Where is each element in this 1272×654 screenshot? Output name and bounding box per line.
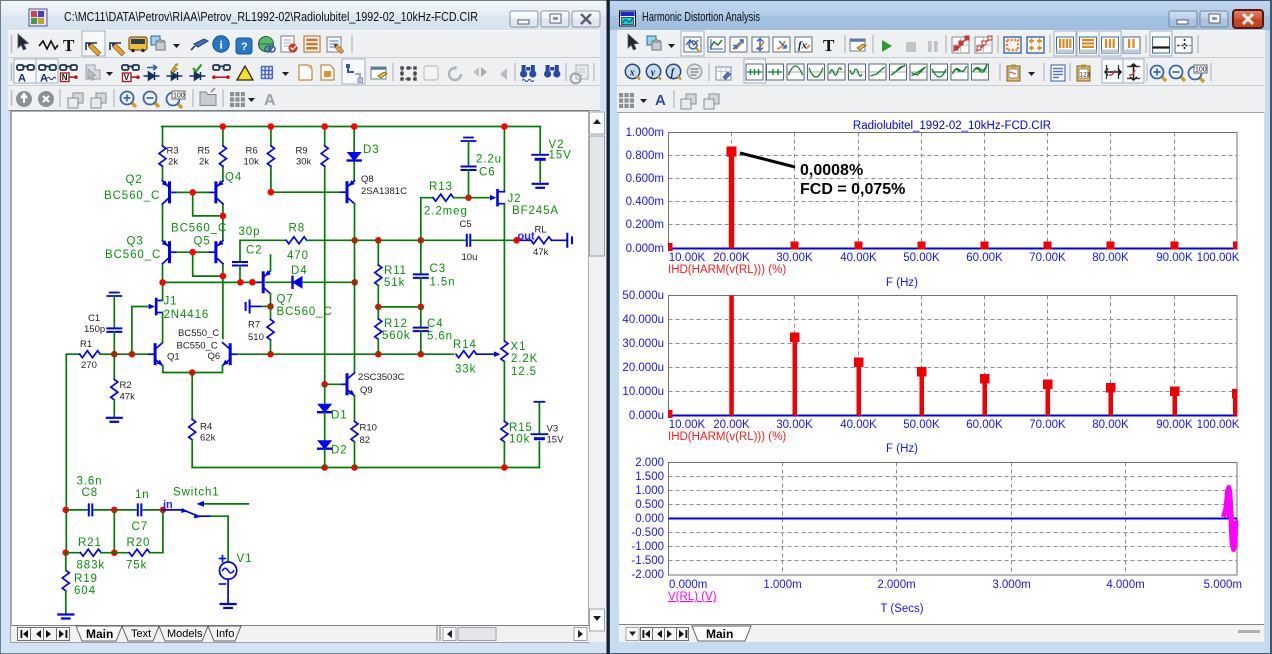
resistor R8 — [286, 237, 307, 244]
resistor R6 — [267, 146, 274, 167]
wire D1 top — [324, 384, 326, 403]
toolbar area — [617, 30, 1265, 112]
junction R8row-C3 — [418, 237, 425, 244]
wire cap to Q7 collector — [251, 305, 262, 307]
wire R20 right corner — [150, 510, 163, 553]
capacitor C8 — [89, 504, 93, 515]
wire Q9 base row — [325, 383, 341, 385]
capacitor at Q7 emitter — [246, 301, 250, 313]
ground at R19 — [58, 615, 73, 619]
svg-text:V3: V3 — [547, 424, 559, 435]
junction R9-Q9 base-D1 — [321, 381, 328, 388]
diode D2 — [318, 441, 331, 449]
toolbar area — [8, 30, 600, 111]
wire R14 to X1 wiper — [477, 353, 498, 355]
wire C3 top — [420, 240, 422, 274]
junction C4 bottom — [418, 351, 425, 358]
wire RL to terminator — [552, 239, 567, 241]
wire R10 bottom — [354, 442, 356, 468]
junction wire joint — [249, 279, 256, 286]
wire Q3col to Q7 base — [163, 281, 258, 283]
svg-text:5.000m: 5.000m — [1204, 579, 1242, 591]
wire J1 gate — [132, 307, 150, 355]
wire D1-D2 — [324, 413, 326, 440]
plot 2 — [669, 296, 1238, 416]
wire D2 bottom — [324, 450, 326, 468]
svg-text:Q4: Q4 — [225, 172, 242, 184]
svg-text:BC550_C: BC550_C — [177, 341, 218, 352]
wire R11 bottom — [377, 285, 379, 307]
svg-text:BC560_C: BC560_C — [277, 306, 333, 318]
junction Q5 collector — [220, 273, 227, 280]
junction rail-R9 — [321, 123, 328, 130]
svg-text:15V: 15V — [547, 435, 565, 446]
svg-text:V1: V1 — [237, 553, 253, 565]
svg-text:D1: D1 — [331, 410, 348, 422]
svg-text:10k: 10k — [244, 157, 260, 168]
wire R9 column — [324, 127, 326, 385]
svg-text:A: A — [18, 73, 26, 85]
junction Q3-Q5 bases — [189, 249, 196, 256]
svg-text:N: N — [62, 73, 68, 82]
svg-text:20.00K: 20.00K — [713, 419, 750, 431]
wire out to RL — [517, 239, 531, 241]
svg-text:-1.500: -1.500 — [631, 555, 664, 567]
svg-text:0.000m: 0.000m — [669, 579, 707, 591]
svg-text:V: V — [124, 73, 130, 82]
svg-text:510: 510 — [248, 332, 264, 343]
wire left column — [65, 354, 67, 553]
svg-text:FCD = 0,075%: FCD = 0,075% — [800, 181, 905, 198]
svg-text:10k: 10k — [509, 434, 530, 446]
junction rail-R15 — [501, 464, 508, 471]
svg-text:Switch1: Switch1 — [173, 487, 220, 499]
svg-text:0.800m: 0.800m — [626, 150, 664, 162]
JFET J2 — [498, 190, 505, 205]
capacitor C2 — [233, 262, 247, 266]
svg-text:2.000m: 2.000m — [877, 579, 915, 591]
wire R8 to C5 — [307, 239, 465, 241]
svg-text:R2: R2 — [120, 380, 132, 391]
svg-text:R14: R14 — [453, 339, 477, 351]
svg-text:out: out — [518, 231, 535, 243]
resistor R11 — [375, 265, 382, 286]
svg-text:IHD(HARM(v(RL))) (%): IHD(HARM(v(RL))) (%) — [668, 431, 786, 443]
wire R2 top — [113, 354, 115, 379]
svg-text:Q2: Q2 — [126, 174, 143, 186]
svg-text:C7: C7 — [132, 521, 149, 533]
resistor R5 — [219, 146, 226, 167]
resistor R19 — [62, 570, 69, 590]
junction J1 gate wire — [129, 351, 136, 358]
wire C1 bottom — [113, 332, 115, 354]
wire R1 to Q1 base — [100, 353, 149, 355]
capacitor C6 — [462, 167, 476, 171]
svg-text:A: A — [655, 92, 666, 109]
svg-text:40.00K: 40.00K — [840, 252, 877, 264]
diode D4 — [293, 277, 303, 288]
svg-text:100.00K: 100.00K — [1197, 419, 1240, 431]
capacitor C4 — [414, 328, 428, 332]
wire Q9 emitter to R10 — [354, 396, 356, 422]
svg-text:20.000u: 20.000u — [622, 362, 664, 374]
svg-text:T: T — [63, 36, 75, 55]
svg-text:A: A — [40, 73, 48, 85]
transistor Q4 — [210, 181, 223, 204]
resistor R12 — [375, 319, 382, 340]
resistor R9 — [321, 146, 328, 167]
svg-text:60.00K: 60.00K — [966, 419, 1003, 431]
svg-text:1.000m: 1.000m — [626, 127, 664, 139]
svg-text:1n: 1n — [135, 489, 150, 501]
junction R21 left — [63, 549, 70, 556]
svg-text:0.500: 0.500 — [635, 499, 664, 511]
wire V3 column — [538, 404, 540, 468]
plot canvas — [619, 113, 1264, 624]
svg-text:C2: C2 — [246, 245, 263, 257]
svg-text:Main: Main — [706, 627, 733, 641]
svg-text:Radiolubitel_1992-02_10kHz-FCD: Radiolubitel_1992-02_10kHz-FCD.CIR — [853, 120, 1051, 132]
resistor R7 — [267, 319, 274, 340]
svg-text:10.00K: 10.00K — [669, 419, 706, 431]
svg-text:fx: fx — [798, 40, 808, 52]
wire R13 to J2 gate — [454, 197, 491, 199]
switch Switch1 — [163, 510, 211, 516]
wire D3 column — [353, 127, 355, 182]
svg-text:V(RL) (V): V(RL) (V) — [668, 591, 717, 603]
svg-text:RL: RL — [535, 225, 547, 236]
junction rail-D3 — [351, 123, 358, 130]
wire Q2 collector to Q3 — [162, 204, 164, 241]
open terminal of C1 — [107, 293, 121, 297]
diode D1 — [318, 404, 331, 412]
resistor R15 — [501, 421, 508, 442]
ground at V1 — [221, 604, 236, 608]
svg-text:90.00K: 90.00K — [1156, 419, 1193, 431]
plus mark of V1 — [220, 556, 226, 562]
svg-text:80.00K: 80.00K — [1092, 419, 1129, 431]
bottom tab bar — [619, 624, 1264, 642]
svg-text:BC550_C: BC550_C — [178, 328, 219, 339]
svg-text:R20: R20 — [127, 537, 151, 549]
svg-text:R1: R1 — [80, 339, 92, 350]
svg-text:2k: 2k — [168, 157, 178, 168]
resistor R1 — [80, 351, 100, 358]
wire C8 left lead — [66, 509, 87, 511]
svg-text:10.000u: 10.000u — [622, 386, 664, 398]
wire base loop to Q4 collector — [193, 192, 223, 216]
vertical scrollbar — [589, 111, 606, 642]
svg-text:0.600m: 0.600m — [626, 173, 664, 185]
node in — [160, 507, 167, 514]
transistor Q3 — [163, 241, 176, 264]
svg-text:BC560_C: BC560_C — [104, 190, 160, 202]
svg-text:50.000u: 50.000u — [622, 290, 664, 302]
junction rail-D2 — [321, 464, 328, 471]
wire Q8 collector column — [354, 204, 356, 373]
svg-text:BC560_C: BC560_C — [105, 249, 161, 261]
svg-text:F (Hz): F (Hz) — [886, 277, 918, 289]
svg-text:?: ? — [241, 41, 248, 53]
junction C8-C7-R21-R20 — [111, 507, 118, 514]
wire V2 column — [539, 127, 541, 182]
junction R8row-R11 — [375, 237, 382, 244]
svg-text:70.00K: 70.00K — [1029, 252, 1066, 264]
wire cap wire — [262, 305, 271, 307]
svg-text:Harmonic Distortion Analysis: Harmonic Distortion Analysis — [642, 10, 760, 24]
capacitor C7 — [138, 504, 142, 515]
junction R21-R20 — [111, 549, 118, 556]
junction rail-J2 — [501, 123, 508, 130]
junction R7 bottom — [267, 351, 274, 358]
transistor Q5 — [210, 241, 223, 264]
svg-text:Main: Main — [86, 627, 113, 641]
wire R12 bottom — [377, 339, 379, 354]
svg-text:2N4416: 2N4416 — [164, 309, 210, 321]
svg-text:R10: R10 — [360, 423, 377, 434]
svg-text:1.5n: 1.5n — [430, 277, 456, 289]
svg-text:Q3: Q3 — [127, 236, 144, 248]
wire base loop to Q5 collector — [193, 252, 223, 276]
wire C5 to out node — [472, 239, 517, 241]
junction rail-R6 — [268, 123, 275, 130]
wire Q4 collector column — [222, 204, 224, 241]
svg-text:470: 470 — [287, 250, 309, 262]
svg-text:4.000m: 4.000m — [1106, 579, 1144, 591]
svg-text:R15: R15 — [509, 422, 533, 434]
svg-text:Q7: Q7 — [277, 294, 294, 306]
wire R5 column — [222, 127, 224, 182]
canvas — [11, 111, 589, 642]
horizontal scrollbar segment — [436, 626, 438, 641]
svg-text:R11: R11 — [384, 265, 407, 277]
svg-text:C1: C1 — [88, 313, 100, 324]
svg-text:Q5: Q5 — [194, 236, 211, 248]
svg-text:604: 604 — [74, 585, 96, 597]
svg-text:F (Hz): F (Hz) — [886, 443, 918, 455]
svg-text:123: 123 — [1080, 72, 1091, 79]
svg-text:0.000u: 0.000u — [629, 410, 664, 422]
wire switch throw indicator — [203, 503, 248, 505]
resistor RL — [531, 237, 551, 244]
junction rail-R10 — [351, 464, 358, 471]
svg-text:Text: Text — [131, 628, 151, 640]
svg-text:60.00K: 60.00K — [966, 252, 1003, 264]
wire R19 bottom — [65, 591, 67, 614]
svg-text:2.2meg: 2.2meg — [424, 206, 468, 218]
wire R1 corner to left column — [66, 353, 79, 355]
svg-text:5.6n: 5.6n — [427, 331, 453, 343]
svg-text:82: 82 — [360, 435, 371, 446]
transistor Q7 — [257, 271, 270, 294]
wire Q1 emitter join — [163, 366, 223, 373]
svg-text:12.5: 12.5 — [511, 366, 537, 378]
wire R19 top — [65, 553, 67, 571]
junction Q4 collector loop — [220, 213, 227, 220]
svg-text:100.00K: 100.00K — [1197, 252, 1240, 264]
svg-text:47k: 47k — [120, 392, 136, 403]
resistor R13 — [433, 194, 454, 201]
wire Q7 base to D4 — [266, 281, 292, 283]
wire Q6 base to R14 — [237, 353, 454, 355]
svg-text:R21: R21 — [78, 537, 102, 549]
svg-text:J1: J1 — [164, 296, 178, 308]
svg-text:47k: 47k — [533, 247, 549, 258]
svg-text:100: 100 — [173, 93, 185, 100]
svg-text:3.6n: 3.6n — [77, 476, 103, 488]
svg-text:Q6: Q6 — [208, 351, 221, 362]
wire C2 bottom — [239, 266, 241, 283]
wire Q5 collector to Q6 — [222, 264, 224, 339]
svg-text:Q1: Q1 — [167, 352, 180, 363]
wire X1 bottom to R15 — [503, 362, 505, 422]
source V1 — [220, 562, 237, 579]
transistor Q1 — [149, 343, 163, 366]
svg-text:2SA1381C: 2SA1381C — [361, 186, 407, 197]
svg-text:T: T — [823, 36, 835, 55]
wire J1 source to Q1 — [162, 313, 164, 343]
svg-text:R4: R4 — [200, 422, 212, 433]
svg-text:50.00K: 50.00K — [903, 419, 940, 431]
svg-text:270: 270 — [81, 360, 97, 371]
svg-text:0,0008%: 0,0008% — [800, 162, 863, 179]
resistor R21 — [81, 549, 101, 556]
svg-text:C:\MC11\DATA\Petrov\RIAA\Petro: C:\MC11\DATA\Petrov\RIAA\Petrov_RL1992-0… — [64, 10, 478, 24]
svg-text:62k: 62k — [200, 433, 216, 444]
wire R15 to rail — [503, 442, 505, 468]
svg-text:R19: R19 — [74, 573, 98, 585]
wire D4 to Q8 column — [303, 281, 355, 283]
svg-text:R3: R3 — [167, 146, 179, 157]
junction rail-R5 — [220, 123, 227, 130]
wire R13 left corner — [421, 198, 433, 241]
wire C6 top — [468, 141, 470, 166]
wire C4 top — [420, 307, 422, 328]
junction Q2-Q4 bases — [189, 189, 196, 196]
svg-text:Info: Info — [216, 628, 234, 640]
svg-text:40.00K: 40.00K — [840, 419, 877, 431]
junction C6-R13 — [465, 194, 472, 201]
svg-text:C5: C5 — [460, 219, 472, 230]
junction C1 bottom — [111, 351, 118, 358]
wire J1 drain — [162, 282, 164, 300]
resistor R3 — [159, 146, 166, 167]
wire V1 bottom — [227, 579, 229, 603]
wire C3 bottom — [420, 278, 422, 307]
potentiometer X1 — [501, 341, 508, 362]
svg-text:30.000u: 30.000u — [622, 338, 664, 350]
ground terminator at RL — [567, 234, 572, 247]
junction R11-R12 — [375, 304, 382, 311]
svg-text:0.000: 0.000 — [635, 513, 664, 525]
wire Q2-Q4 base row — [176, 191, 209, 193]
battery V2 — [532, 155, 548, 160]
svg-text:R12: R12 — [384, 318, 408, 330]
svg-text:560k: 560k — [382, 330, 411, 342]
svg-text:-0.500: -0.500 — [631, 527, 664, 539]
capacitor C3 — [414, 274, 428, 278]
svg-text:10.00K: 10.00K — [669, 252, 706, 264]
wire J2 source to X1 — [503, 204, 505, 341]
svg-text:75k: 75k — [126, 560, 147, 572]
svg-text:R6: R6 — [246, 146, 258, 157]
svg-text:C6: C6 — [479, 167, 496, 179]
svg-text:IHD(HARM(v(RL))) (%): IHD(HARM(v(RL))) (%) — [668, 264, 786, 276]
wire C8-C7 — [94, 509, 136, 511]
wire R21 left lead — [66, 552, 80, 554]
open terminal of V3 — [534, 401, 544, 403]
wire R6 to Q7 emitter — [270, 255, 272, 271]
junction R6-Q8 base — [268, 189, 275, 196]
svg-text:883k: 883k — [77, 560, 106, 572]
svg-text:y: y — [650, 67, 656, 78]
wire switch to V1 — [211, 516, 228, 562]
resistor R4 — [189, 419, 196, 440]
svg-text:Models: Models — [167, 628, 203, 640]
svg-text:33k: 33k — [455, 364, 476, 376]
svg-text:2.000: 2.000 — [635, 457, 664, 469]
svg-text:80.00K: 80.00K — [1092, 252, 1129, 264]
svg-text:0.000m: 0.000m — [626, 243, 664, 255]
svg-text:20.00K: 20.00K — [713, 252, 750, 264]
wire Q8 base row — [271, 191, 340, 193]
svg-text:Q9: Q9 — [360, 385, 373, 396]
resistor R10 — [351, 421, 358, 442]
svg-text:R5: R5 — [198, 146, 210, 157]
transistor Q6 — [223, 343, 237, 366]
resistor R20 — [129, 549, 150, 556]
open terminal of C6 — [462, 138, 476, 142]
svg-text:-2.000: -2.000 — [631, 569, 664, 581]
wire mid column — [113, 510, 115, 553]
wire R11-C3 row — [378, 306, 421, 308]
svg-text:50.00K: 50.00K — [903, 252, 940, 264]
svg-text:Q8: Q8 — [361, 174, 374, 185]
svg-text:30.00K: 30.00K — [776, 252, 813, 264]
junction out — [513, 237, 520, 244]
svg-text:R13: R13 — [429, 181, 453, 193]
svg-text:C4: C4 — [427, 318, 444, 330]
battery V3 — [531, 434, 547, 439]
svg-text:BF245A: BF245A — [512, 205, 559, 217]
wire C1 top — [113, 296, 115, 328]
ground at V2 — [533, 184, 548, 188]
wire R21-R20 — [101, 552, 129, 554]
svg-text:BC560_C: BC560_C — [171, 223, 227, 235]
svg-text:3.000m: 3.000m — [992, 579, 1030, 591]
svg-text:0.200m: 0.200m — [626, 219, 664, 231]
minus mark of V1 — [220, 583, 226, 585]
svg-text:D2: D2 — [331, 445, 348, 457]
svg-text:15V: 15V — [549, 150, 572, 162]
svg-text:R8: R8 — [289, 223, 306, 235]
svg-text:40.000u: 40.000u — [622, 314, 664, 326]
junction R8row-Q8col — [351, 237, 358, 244]
capacitor C5 — [467, 235, 471, 246]
svg-text:30p: 30p — [239, 226, 261, 238]
svg-text:0.400m: 0.400m — [626, 196, 664, 208]
wire Q3-Q5 base row — [176, 251, 209, 253]
wire R2 bottom — [113, 400, 115, 417]
wire R4 to bottom rail — [191, 440, 193, 468]
wire Q7 to R7 — [270, 294, 272, 320]
svg-text:1.000m: 1.000m — [763, 579, 801, 591]
svg-text:C3: C3 — [430, 263, 447, 275]
svg-text:D3: D3 — [363, 144, 380, 156]
svg-text:R9: R9 — [296, 146, 308, 157]
transistor Q9 — [341, 373, 355, 396]
svg-text:D4: D4 — [291, 265, 308, 277]
